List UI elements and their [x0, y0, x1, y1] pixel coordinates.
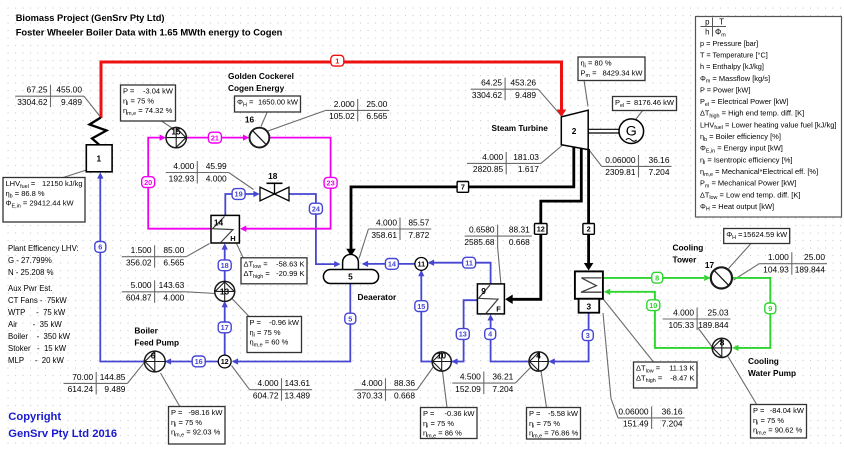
svg-text:1.617: 1.617 — [518, 164, 539, 174]
svg-text:7.204: 7.204 — [492, 384, 513, 394]
svg-text:9.489: 9.489 — [104, 384, 125, 394]
callout line pipe13 value — [417, 367, 434, 390]
svg-text:-58.63 K: -58.63 K — [276, 259, 304, 268]
value label c4 — [166, 161, 229, 184]
callout line pipe10 value — [698, 328, 713, 348]
svg-text:9: 9 — [481, 286, 486, 296]
svg-text:11.13 K: 11.13 K — [669, 364, 694, 373]
svg-text:604.87: 604.87 — [126, 293, 152, 303]
svg-text:P =: P = — [753, 406, 765, 415]
pump P10 — [432, 352, 451, 371]
svg-text:4.000: 4.000 — [258, 378, 279, 388]
svg-text:T = Temperature [°C]: T = Temperature [°C] — [700, 50, 768, 59]
svg-text:9.489: 9.489 — [515, 90, 536, 100]
wire junction12 up to pump13 — [224, 306, 226, 355]
svg-text:P =: P = — [250, 318, 262, 327]
node pipe 5 — [345, 313, 356, 324]
svg-text:WTP - 75 kW: WTP - 75 kW — [8, 308, 66, 317]
svg-text:h: h — [705, 28, 709, 37]
svg-text:P =: P = — [171, 408, 183, 417]
svg-text:-84.04 kW: -84.04 kW — [770, 406, 805, 415]
svg-text:23: 23 — [327, 179, 335, 188]
wire heater14 to valve18 — [225, 194, 254, 215]
svg-text:2585.68: 2585.68 — [464, 237, 495, 247]
value label c8 — [368, 217, 431, 240]
callout line heater14 dT box — [237, 244, 244, 259]
label box boiler LHV — [3, 178, 85, 223]
svg-text:-20.99 K: -20.99 K — [276, 269, 304, 278]
svg-text:4: 4 — [536, 350, 541, 360]
pump P13 — [215, 281, 235, 301]
label box pump4 power — [527, 408, 581, 440]
svg-text:25.03: 25.03 — [708, 307, 729, 317]
svg-text:H: H — [230, 234, 235, 243]
wire red main steam boiler to turbine — [101, 62, 562, 118]
svg-text:Foster Wheeler Boiler Data wit: Foster Wheeler Boiler Data with 1.65 MWt… — [16, 26, 283, 37]
svg-text:17: 17 — [221, 323, 229, 332]
callout line pump4 P box — [541, 371, 547, 408]
pump P6 — [144, 351, 165, 372]
callout line turbine P box — [584, 80, 588, 107]
node pipe 6 — [95, 242, 106, 253]
svg-text:Water Pump: Water Pump — [748, 368, 796, 378]
node pipe 11 — [463, 257, 476, 268]
svg-text:N - 25.208 %: N - 25.208 % — [8, 268, 54, 277]
svg-text:6.565: 6.565 — [366, 111, 387, 121]
svg-text:1.000: 1.000 — [768, 252, 789, 262]
svg-text:7.204: 7.204 — [662, 419, 683, 429]
svg-text:2.000: 2.000 — [334, 99, 355, 109]
svg-text:25.00: 25.00 — [366, 99, 387, 109]
svg-text:17: 17 — [705, 260, 715, 270]
node pipe 14 — [385, 259, 398, 270]
wire cooling tower to pump8 (pipe 9) — [732, 278, 771, 348]
value label c2 — [64, 372, 128, 395]
svg-text:85.00: 85.00 — [163, 245, 184, 255]
svg-text:-98.16 kW: -98.16 kW — [188, 408, 223, 417]
svg-text:16: 16 — [195, 357, 203, 366]
svg-text:Stoker - 15 kW: Stoker - 15 kW — [8, 344, 67, 353]
callout line pipe14 value — [359, 229, 368, 259]
deaerator 5 — [323, 254, 378, 283]
svg-text:88.31: 88.31 — [509, 225, 530, 235]
svg-text:2: 2 — [587, 225, 591, 234]
svg-text:12: 12 — [221, 357, 229, 366]
svg-text:9: 9 — [768, 304, 772, 313]
wire junction11 to deaerator — [363, 263, 415, 265]
label box pump15 power — [121, 85, 176, 121]
callout line pump15 P box — [162, 121, 173, 129]
svg-text:3304.62: 3304.62 — [17, 97, 48, 107]
svg-text:Golden Cockerel: Golden Cockerel — [228, 71, 294, 81]
svg-text:104.93: 104.93 — [763, 265, 789, 275]
value label c13 — [354, 378, 417, 401]
value label c10 — [471, 78, 538, 101]
svg-text:-0.96 kW: -0.96 kW — [269, 318, 300, 327]
svg-text:0.668: 0.668 — [394, 391, 415, 401]
svg-text:8429.34 kW: 8429.34 kW — [602, 68, 643, 77]
steam turbine 2 — [561, 110, 588, 149]
svg-text:356.02: 356.02 — [126, 258, 152, 268]
svg-text:-0.36 kW: -0.36 kW — [444, 409, 475, 418]
condenser 3 — [575, 271, 603, 312]
svg-text:143.63: 143.63 — [159, 280, 185, 290]
svg-text:4.000: 4.000 — [673, 307, 694, 317]
svg-text:G - 27.799%: G - 27.799% — [8, 256, 52, 265]
node pipe 4 — [485, 329, 496, 340]
pump P15 — [166, 127, 186, 147]
svg-text:453.26: 453.26 — [510, 78, 536, 88]
svg-text:p = Pressure [bar]: p = Pressure [bar] — [700, 39, 758, 48]
cooling tower 17 — [711, 267, 732, 288]
svg-text:1.500: 1.500 — [131, 245, 152, 255]
svg-text:14: 14 — [214, 218, 224, 228]
svg-text:4.000: 4.000 — [206, 173, 227, 183]
svg-text:20: 20 — [144, 178, 152, 187]
svg-text:18: 18 — [268, 171, 278, 181]
svg-text:0.6580: 0.6580 — [469, 225, 495, 235]
svg-text:4.500: 4.500 — [460, 372, 481, 382]
svg-text:12: 12 — [537, 225, 545, 234]
callout line condenser dT box — [603, 299, 653, 362]
cogen heat consumer 16 — [250, 128, 270, 148]
svg-text:Biomass Project (GenSrv Pty Lt: Biomass Project (GenSrv Pty Ltd) — [16, 13, 165, 23]
junction node J11 — [415, 258, 428, 271]
svg-text:Tower: Tower — [673, 255, 698, 265]
svg-text:15624.59 kW: 15624.59 kW — [743, 230, 788, 239]
node pipe 18 — [218, 260, 231, 271]
value label c3 — [326, 99, 390, 122]
svg-text:3: 3 — [586, 331, 590, 340]
svg-text:105.02: 105.02 — [329, 111, 355, 121]
callout line turbine exhaust value — [590, 151, 602, 167]
svg-text:4.000: 4.000 — [362, 378, 383, 388]
node pipe 10 — [647, 300, 660, 311]
callout line pipe20 value — [186, 244, 209, 257]
svg-text:19: 19 — [235, 190, 243, 199]
svg-text:0.06000: 0.06000 — [618, 406, 649, 416]
value label c15 — [618, 406, 685, 429]
svg-text:8: 8 — [655, 273, 659, 282]
svg-text:Boiler: Boiler — [134, 326, 158, 336]
svg-text:5: 5 — [348, 272, 353, 282]
callout line turbine inlet value — [538, 89, 561, 116]
svg-text:36.16: 36.16 — [649, 155, 670, 165]
label box turbine power — [578, 57, 645, 81]
node pipe 21 — [208, 132, 221, 143]
svg-text:G: G — [626, 124, 637, 140]
svg-text:105.33: 105.33 — [668, 320, 694, 330]
svg-text:11: 11 — [465, 258, 473, 267]
wire cogen16 to heater14 (pipe 23) — [246, 138, 331, 229]
label box generator power — [613, 97, 677, 111]
node pipe 7 — [457, 182, 469, 193]
node pipe 15 — [415, 301, 428, 312]
svg-text:4.000: 4.000 — [173, 161, 194, 171]
svg-text:Deaerator: Deaerator — [358, 292, 398, 302]
svg-text:P =: P = — [529, 409, 541, 418]
boiler furnace flame zigzag — [90, 118, 107, 146]
svg-text:Steam Turbine: Steam Turbine — [492, 124, 549, 133]
svg-text:4.000: 4.000 — [482, 152, 503, 162]
node pipe 9 — [765, 303, 776, 314]
svg-text:0.668: 0.668 — [509, 237, 530, 247]
label box pump8 power — [751, 405, 807, 439]
callout line condenser exhaust value2 — [611, 399, 618, 418]
svg-text:14: 14 — [388, 260, 397, 269]
svg-text:88.36: 88.36 — [394, 378, 415, 388]
callout line pipe16 value — [232, 366, 250, 390]
svg-text:P =: P = — [423, 409, 435, 418]
junction node J12 — [218, 355, 231, 368]
value label c7 — [250, 378, 313, 401]
node pipe 23 — [324, 177, 337, 188]
value label c14 — [452, 372, 515, 395]
callout line pump6 P box — [161, 373, 181, 407]
label box pump6 power — [169, 407, 226, 445]
svg-text:6: 6 — [98, 243, 102, 252]
callout line condenser exhaust value — [603, 313, 611, 399]
svg-text:189.844: 189.844 — [698, 320, 729, 330]
generator G — [619, 119, 644, 144]
svg-text:21: 21 — [211, 133, 219, 142]
callout line feedwater value — [127, 362, 144, 383]
legend box — [696, 17, 842, 218]
svg-text:67.25: 67.25 — [27, 85, 48, 95]
svg-text:70.00: 70.00 — [72, 372, 93, 382]
node pipe 3 — [582, 330, 593, 341]
svg-text:6: 6 — [151, 350, 156, 360]
svg-text:2820.85: 2820.85 — [473, 164, 504, 174]
svg-text:3304.62: 3304.62 — [472, 90, 503, 100]
callout line cooling tower power box — [729, 244, 752, 269]
svg-text:455.00: 455.00 — [56, 85, 82, 95]
node pipe 8 — [652, 272, 663, 283]
node pipe 20 — [142, 177, 155, 188]
node pipe 12 — [535, 224, 548, 235]
svg-text:-3.04 kW: -3.04 kW — [143, 87, 174, 96]
svg-text:10: 10 — [649, 301, 657, 310]
callout line generator P box — [636, 110, 643, 119]
svg-text:192.93: 192.93 — [169, 173, 195, 183]
callout line cogen value — [267, 110, 326, 131]
wire pump6 to boiler — [100, 178, 145, 362]
svg-text:15: 15 — [171, 127, 181, 137]
value label c5 — [122, 245, 187, 268]
wire pump4 to heater9 — [491, 320, 529, 362]
svg-text:13.489: 13.489 — [284, 391, 310, 401]
value label c11 — [467, 152, 541, 175]
value label c17 — [663, 307, 731, 330]
svg-text:0.06000: 0.06000 — [605, 155, 636, 165]
svg-text:2309.81: 2309.81 — [605, 167, 636, 177]
node pipe 13 — [456, 329, 469, 340]
valve 18 — [260, 183, 289, 201]
wire junction12 to pump6 — [166, 361, 218, 363]
svg-text:GenSrv Pty Ltd 2016: GenSrv Pty Ltd 2016 — [8, 428, 117, 440]
svg-text:85.57: 85.57 — [408, 217, 429, 227]
svg-text:Air - 35 kW: Air - 35 kW — [8, 320, 62, 329]
svg-text:7.872: 7.872 — [408, 230, 429, 240]
value label c1 — [15, 85, 84, 108]
svg-text:3: 3 — [586, 301, 591, 311]
svg-text:5: 5 — [348, 314, 352, 323]
wire deaerator down to junction 12 — [233, 283, 350, 361]
node pipe 24 — [309, 203, 322, 214]
svg-text:1: 1 — [335, 56, 339, 65]
pump P4 — [529, 352, 548, 371]
node pipe 16 — [192, 356, 205, 367]
svg-text:181.03: 181.03 — [513, 152, 539, 162]
svg-text:P = Power [kW]: P = Power [kW] — [700, 85, 750, 94]
svg-text:614.24: 614.24 — [68, 384, 94, 394]
callout line pipe12 value — [498, 247, 501, 285]
svg-text:8176.46 kW: 8176.46 kW — [634, 98, 675, 107]
svg-text:11: 11 — [417, 260, 425, 269]
svg-text:-5.58 kW: -5.58 kW — [548, 409, 579, 418]
svg-text:24: 24 — [312, 204, 321, 213]
svg-text:Boiler - 350 kW: Boiler - 350 kW — [8, 332, 71, 341]
wire heater9 drain to pump10 — [452, 300, 477, 361]
wire black turbine extraction to deaerator — [351, 147, 574, 249]
svg-text:Plant Efficency LHV:: Plant Efficency LHV: — [8, 244, 79, 253]
svg-text:152.09: 152.09 — [455, 384, 481, 394]
callout line pump10 P box — [443, 372, 448, 408]
wire black turbine extraction to heater 9 — [511, 148, 581, 299]
svg-text:-8.47 K: -8.47 K — [670, 373, 694, 382]
node pipe 19 — [232, 189, 245, 200]
svg-text:36.16: 36.16 — [662, 406, 683, 416]
svg-text:5.000: 5.000 — [131, 280, 152, 290]
svg-text:1650.00 kW: 1650.00 kW — [258, 98, 299, 107]
boiler 1 — [86, 145, 112, 172]
svg-text:4.000: 4.000 — [376, 217, 397, 227]
node pipe 2 — [583, 224, 595, 235]
svg-text:10: 10 — [437, 350, 447, 360]
node pipe 1 — [331, 55, 344, 66]
wire pump10 up to junction11 — [421, 271, 432, 362]
callout line pipe3 value — [515, 367, 531, 383]
svg-text:CT Fans - 75kW: CT Fans - 75kW — [8, 296, 67, 305]
svg-text:9.489: 9.489 — [61, 97, 82, 107]
svg-text:189.844: 189.844 — [795, 265, 826, 275]
svg-text:18: 18 — [221, 261, 229, 270]
svg-text:Cooling: Cooling — [673, 243, 704, 253]
wire condenser to pump4 — [550, 313, 589, 362]
generator shaft — [588, 128, 619, 130]
svg-text:MLP - 20 kW: MLP - 20 kW — [8, 356, 65, 365]
heater 9 — [477, 284, 504, 314]
svg-text:36.21: 36.21 — [492, 372, 513, 382]
svg-text:4.000: 4.000 — [163, 293, 184, 303]
value label c6 — [122, 280, 187, 303]
wire valve18 to deaerator — [289, 194, 336, 264]
callout line pipe17 value — [186, 292, 215, 294]
callout line pipe7 value — [541, 146, 562, 164]
wire pump15 to cogen16 (pipe 21) — [186, 137, 244, 139]
svg-text:151.49: 151.49 — [623, 419, 649, 429]
label box pump10 power — [421, 408, 478, 440]
node pipe 17 — [218, 322, 231, 333]
wire pump13 to heater14 — [224, 249, 226, 283]
callout line pump13 P box — [231, 298, 250, 318]
svg-text:2: 2 — [572, 126, 577, 136]
svg-text:7.204: 7.204 — [649, 167, 670, 177]
wire condenser to cooling tower (pipe 8) — [603, 277, 704, 279]
label box cogen heat output — [235, 96, 301, 112]
callout line boiler LHV box — [57, 170, 87, 180]
svg-text:16: 16 — [245, 115, 255, 125]
svg-text:13: 13 — [459, 330, 467, 339]
value label c9 — [464, 225, 531, 248]
callout line tower outlet value — [734, 264, 760, 280]
svg-text:45.99: 45.99 — [206, 161, 227, 171]
svg-text:144.85: 144.85 — [100, 372, 126, 382]
svg-text:Cogen Energy: Cogen Energy — [228, 83, 285, 93]
value label c16 — [759, 252, 827, 275]
svg-text:604.72: 604.72 — [253, 391, 279, 401]
label box cooling tower heat — [724, 229, 790, 244]
svg-text:12150 kJ/kg: 12150 kJ/kg — [42, 179, 82, 188]
wire black turbine exhaust to condenser — [587, 149, 590, 263]
svg-text:Copyright: Copyright — [8, 411, 61, 423]
label box condenser dT — [634, 362, 698, 388]
svg-text:7: 7 — [461, 183, 465, 192]
svg-text:143.61: 143.61 — [284, 378, 310, 388]
svg-text:25.00: 25.00 — [804, 252, 825, 262]
wire pump8 to condenser (pipe 10) — [610, 292, 713, 348]
wire heater14 to pump15 (pipe 20) — [148, 138, 211, 229]
svg-text:6.565: 6.565 — [163, 258, 184, 268]
svg-text:13: 13 — [220, 287, 230, 297]
label box heater14 dT — [241, 258, 307, 284]
callout line pump8 P box — [728, 357, 757, 406]
svg-text:1: 1 — [96, 154, 101, 164]
svg-text:8: 8 — [720, 337, 725, 347]
callout line cogen power box — [261, 113, 267, 127]
svg-text:64.25: 64.25 — [481, 78, 502, 88]
callout line pipe19 value — [229, 173, 254, 190]
callout line boiler steam value — [84, 96, 101, 117]
svg-text:h = Enthalpy [kJ/kg]: h = Enthalpy [kJ/kg] — [700, 62, 764, 71]
svg-text:Feed Pump: Feed Pump — [134, 338, 179, 348]
svg-text:F: F — [496, 305, 501, 314]
label box pump13 power — [247, 317, 302, 353]
wire heater9 to junction11 — [429, 263, 491, 284]
svg-text:Cooling: Cooling — [748, 356, 779, 366]
svg-text:370.33: 370.33 — [357, 391, 383, 401]
svg-text:p: p — [705, 18, 710, 27]
value label c12 — [602, 155, 672, 178]
svg-text:Aux Pwr Est.: Aux Pwr Est. — [8, 284, 53, 293]
svg-text:358.61: 358.61 — [371, 230, 397, 240]
heater 14 — [211, 215, 239, 243]
svg-text:P =: P = — [123, 87, 135, 96]
svg-text:T: T — [719, 18, 724, 27]
svg-text:15: 15 — [417, 302, 425, 311]
pump P8 — [712, 338, 731, 357]
